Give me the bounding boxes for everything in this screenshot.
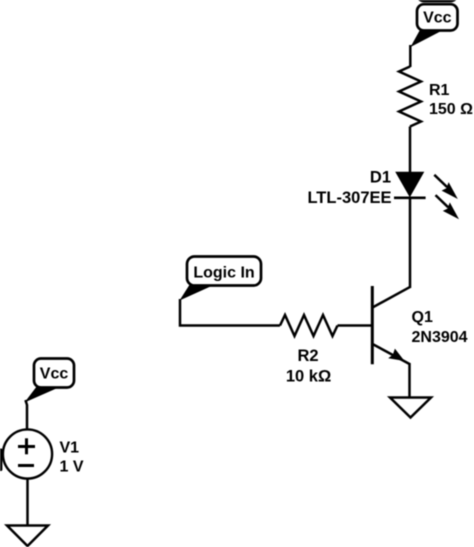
net flag (cut off at top edge) [417, 0, 458, 1]
resistor R2 [280, 315, 338, 336]
svg-text:Q1: Q1 [412, 309, 433, 326]
LED light arrow 2 [436, 195, 460, 219]
label Q1 2N3904 [412, 309, 468, 346]
wire R1 to D1 [409, 127, 412, 175]
LED D1 [394, 173, 426, 198]
LED light arrow 1 [434, 175, 458, 199]
power flag Vcc (top right) [411, 4, 458, 47]
label V1 1 V [60, 440, 84, 476]
wire Vcc to V1 [26, 400, 28, 430]
svg-text:LTL-307EE: LTL-307EE [307, 189, 391, 207]
wire Q1 emitter to ground [408, 363, 411, 398]
wire Vcc to R1 [409, 45, 412, 67]
svg-text:D1: D1 [370, 169, 391, 187]
svg-text:R1: R1 [429, 82, 450, 99]
transistor Q1 [372, 286, 410, 364]
label R1 150 Ω [429, 82, 473, 118]
label D1 LTL-307EE [307, 169, 391, 208]
svg-text:Logic In: Logic In [193, 265, 254, 282]
wire D1 to Q1 collector [409, 197, 412, 288]
svg-text:2N3904: 2N3904 [412, 329, 468, 346]
wire R2 to Q1 base [338, 324, 372, 327]
svg-text:Vcc: Vcc [423, 10, 452, 27]
svg-text:R2: R2 [297, 347, 318, 365]
svg-text:V1: V1 [60, 440, 80, 457]
cropped element at left edge [0, 449, 2, 472]
ground (emitter) [390, 398, 431, 418]
resistor R1 [399, 67, 421, 127]
label R2 10 kΩ [286, 347, 331, 385]
svg-text:10 kΩ: 10 kΩ [286, 367, 331, 385]
net flag Logic In [180, 257, 262, 301]
voltage source V1 [3, 429, 52, 478]
power flag Vcc (bottom left) [25, 359, 75, 403]
svg-text:150 Ω: 150 Ω [429, 101, 473, 118]
svg-text:1 V: 1 V [60, 459, 84, 476]
ground (V1) [7, 526, 48, 547]
svg-text:Vcc: Vcc [40, 366, 69, 383]
wire V1 to ground [26, 479, 29, 526]
wire Logic In to R2 [180, 299, 280, 326]
